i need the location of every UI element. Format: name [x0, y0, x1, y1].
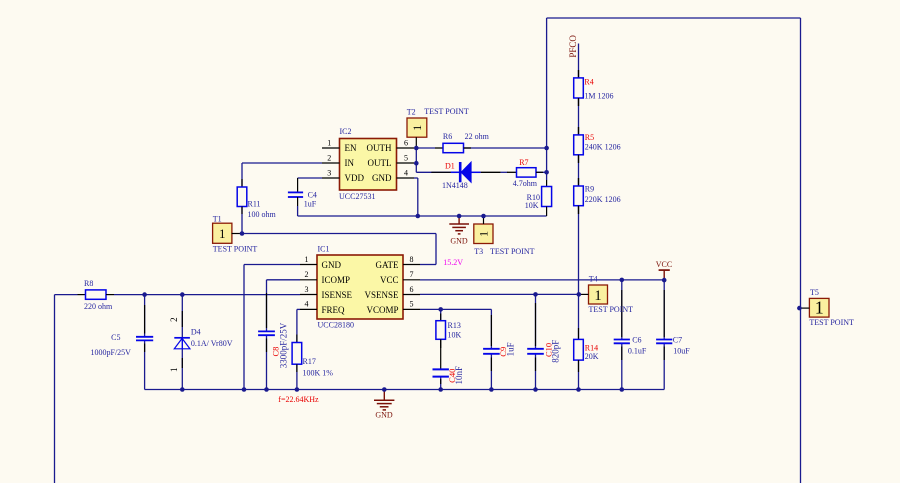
- svg-text:GATE: GATE: [376, 260, 399, 270]
- op-amp driver IC2 UCC27531: [322, 127, 414, 201]
- capacitor C6 0.1uF: [614, 336, 647, 356]
- svg-text:VCC: VCC: [380, 275, 399, 285]
- svg-text:C4: C4: [308, 190, 317, 199]
- wire upper ground rail: [298, 215, 547, 217]
- svg-text:2: 2: [327, 154, 331, 163]
- svg-text:4.7ohm: 4.7ohm: [513, 179, 538, 188]
- svg-text:T2: T2: [407, 108, 416, 117]
- wire IC1 pin5 VCOMP line: [420, 308, 491, 310]
- zener diode D4 0.1A/Vr80V: [169, 317, 233, 372]
- svg-text:5: 5: [404, 154, 408, 163]
- svg-text:10uF: 10uF: [673, 346, 690, 355]
- wire IC1 pin6 VSENSE line: [420, 293, 579, 295]
- svg-text:R17: R17: [303, 357, 316, 366]
- svg-text:R4: R4: [584, 77, 593, 86]
- test point T2: [407, 107, 469, 148]
- svg-text:T1: T1: [213, 215, 222, 224]
- svg-text:220 ohm: 220 ohm: [84, 302, 113, 311]
- svg-text:1: 1: [477, 231, 491, 237]
- svg-text:TEST POINT: TEST POINT: [213, 245, 258, 254]
- wire IC2 pin2 to R11: [242, 163, 322, 187]
- svg-text:0.1uF: 0.1uF: [628, 346, 647, 355]
- svg-text:ICOMP: ICOMP: [322, 275, 351, 285]
- svg-text:1: 1: [410, 125, 424, 131]
- svg-text:1: 1: [327, 139, 331, 148]
- svg-text:100K 1%: 100K 1%: [303, 369, 334, 378]
- voltage annotation 15.2V: [443, 258, 463, 267]
- wire D4 branch bottom: [181, 349, 183, 390]
- resistor R10 10K: [525, 180, 552, 216]
- svg-text:T3: T3: [474, 247, 483, 256]
- svg-text:GND: GND: [375, 410, 393, 419]
- svg-text:VCC: VCC: [656, 260, 672, 269]
- wire IC1 pin7 VCC line: [420, 279, 664, 281]
- ground symbol upper: [449, 216, 469, 245]
- svg-text:R11: R11: [248, 200, 261, 209]
- wire D4 branch top: [181, 295, 183, 338]
- wire C10 branch: [535, 294, 537, 389]
- capacitor C10 820pF: [527, 340, 560, 363]
- svg-text:EN: EN: [345, 143, 357, 153]
- capacitor C8 3300pF/25V: [258, 322, 288, 368]
- resistor R4 1M 1206: [574, 70, 614, 106]
- wire C9 branch: [490, 309, 492, 389]
- svg-text:1: 1: [594, 288, 601, 304]
- resistor R13 10K: [436, 314, 462, 349]
- svg-text:TEST POINT: TEST POINT: [490, 247, 535, 256]
- wire C7 branch: [663, 280, 665, 389]
- svg-text:IC2: IC2: [340, 127, 352, 136]
- svg-text:10nF: 10nF: [454, 366, 464, 385]
- test point T3: [474, 216, 535, 256]
- wire PFCO net vertical: [578, 44, 580, 295]
- svg-text:TEST POINT: TEST POINT: [589, 305, 634, 314]
- svg-text:1M 1206: 1M 1206: [584, 92, 613, 101]
- svg-text:VCOMP: VCOMP: [366, 305, 398, 315]
- svg-text:UCC28180: UCC28180: [318, 321, 354, 330]
- resistor R5 240K 1206: [574, 127, 621, 163]
- svg-text:1000pF/25V: 1000pF/25V: [91, 348, 132, 357]
- wire T1 node to IC1 GATE: [242, 234, 436, 265]
- svg-text:15.2V: 15.2V: [443, 258, 463, 267]
- svg-text:D1: D1: [445, 161, 455, 170]
- wire R6 output to bus: [464, 147, 547, 149]
- wire R17 to rail: [296, 364, 298, 389]
- wire R8 left to bottom: [55, 295, 78, 483]
- svg-text:R9: R9: [585, 185, 594, 194]
- svg-text:5: 5: [410, 300, 414, 309]
- svg-text:1: 1: [305, 255, 309, 264]
- wire C6 branch: [621, 280, 623, 390]
- wire IC1 pin4 FREQ to R17: [297, 309, 300, 342]
- svg-text:TEST POINT: TEST POINT: [809, 318, 854, 327]
- svg-text:8: 8: [410, 255, 414, 264]
- svg-text:10K: 10K: [525, 201, 539, 210]
- svg-text:1: 1: [815, 298, 824, 318]
- svg-text:2: 2: [169, 317, 179, 322]
- test point T4: [579, 275, 633, 315]
- test point T1: [213, 215, 258, 254]
- capacitor C9 1uF: [483, 342, 515, 356]
- svg-text:220K 1206: 220K 1206: [585, 195, 621, 204]
- wire C4 to rail: [297, 206, 299, 216]
- svg-text:GND: GND: [450, 236, 468, 245]
- svg-text:VDD: VDD: [345, 173, 365, 183]
- wire R11 to T1 junction: [241, 207, 243, 234]
- wire junctions: [142, 146, 801, 392]
- svg-text:4: 4: [305, 300, 309, 309]
- svg-text:UCC27531: UCC27531: [339, 192, 375, 201]
- capacitor C4 1uF: [288, 178, 317, 208]
- svg-text:3: 3: [305, 285, 309, 294]
- svg-text:FREQ: FREQ: [322, 305, 346, 315]
- controller IC1 UCC28180: [300, 245, 420, 330]
- svg-text:TEST POINT: TEST POINT: [424, 107, 469, 116]
- wire D1 to R7: [481, 171, 508, 173]
- svg-text:3: 3: [327, 169, 331, 178]
- test point T5: [799, 288, 854, 327]
- wire R8 to IC1 ISENSE: [114, 294, 300, 296]
- wire IC1 pin2 ICOMP to C8: [267, 280, 301, 332]
- capacitor C5 1000pF/25V: [91, 333, 154, 357]
- frequency annotation: [278, 395, 319, 404]
- svg-text:4: 4: [404, 169, 408, 178]
- wire IC2 pin3 to C4: [298, 177, 322, 179]
- svg-text:22 ohm: 22 ohm: [465, 132, 490, 141]
- svg-text:T4: T4: [589, 275, 598, 284]
- power symbol VCC: [656, 260, 672, 280]
- svg-text:0.1A/ Vr80V: 0.1A/ Vr80V: [191, 339, 233, 348]
- capacitor C7 10uF: [656, 336, 690, 356]
- svg-text:R8: R8: [84, 279, 93, 288]
- svg-text:1: 1: [219, 227, 225, 241]
- wire right vertical bus: [800, 18, 802, 483]
- svg-text:2: 2: [305, 270, 309, 279]
- resistor R8 220 ohm: [78, 279, 115, 311]
- resistor R11 100 ohm: [237, 179, 276, 219]
- svg-text:T5: T5: [810, 288, 819, 297]
- svg-text:3300pF/25V: 3300pF/25V: [279, 322, 289, 368]
- svg-text:D4: D4: [191, 328, 201, 337]
- svg-text:1uF: 1uF: [304, 199, 317, 208]
- wire IC1 pin1 GND to rail: [244, 265, 300, 390]
- svg-text:6: 6: [404, 139, 408, 148]
- svg-text:240K 1206: 240K 1206: [585, 142, 621, 151]
- resistor R7 4.7ohm: [507, 158, 543, 188]
- svg-text:C6: C6: [632, 336, 641, 345]
- svg-text:OUTL: OUTL: [368, 158, 392, 168]
- ground symbol lower: [374, 390, 394, 420]
- wire IC2 pin4 to ground rail: [414, 178, 418, 216]
- capacitor C40 10nF: [433, 366, 465, 385]
- wire left vertical of top loop: [546, 18, 548, 180]
- net label PFCO: [568, 35, 578, 58]
- wire C5 branch: [144, 295, 146, 390]
- svg-text:GND: GND: [322, 260, 342, 270]
- svg-text:IC1: IC1: [318, 245, 330, 254]
- svg-text:20K: 20K: [585, 352, 599, 361]
- svg-text:PFCO: PFCO: [568, 35, 578, 58]
- resistor R6 22 ohm: [417, 132, 490, 153]
- svg-text:f=22.64KHz: f=22.64KHz: [278, 395, 319, 404]
- svg-text:10K: 10K: [448, 330, 462, 339]
- wire C8 to rail: [266, 335, 268, 389]
- svg-text:R13: R13: [448, 321, 461, 330]
- wire R13 branch: [440, 309, 442, 389]
- svg-text:C5: C5: [111, 333, 120, 342]
- wire divider to bottom rail: [578, 294, 580, 389]
- svg-text:1uF: 1uF: [505, 342, 515, 356]
- wire top bus from PFC node: [547, 17, 801, 19]
- svg-text:C7: C7: [673, 336, 682, 345]
- resistor R17 100K 1%: [292, 335, 333, 378]
- svg-text:GND: GND: [372, 173, 392, 183]
- svg-text:ISENSE: ISENSE: [322, 290, 353, 300]
- wire R7 to bus: [536, 171, 547, 173]
- resistor R14 20K: [574, 328, 599, 372]
- svg-text:R6: R6: [443, 132, 452, 141]
- resistor R9 220K 1206: [574, 178, 621, 214]
- svg-text:1N4148: 1N4148: [442, 181, 468, 190]
- svg-text:R5: R5: [585, 133, 594, 142]
- svg-text:820pF: 820pF: [551, 340, 561, 363]
- svg-text:IN: IN: [345, 158, 355, 168]
- wire bottom ground rail: [145, 389, 665, 391]
- diode D1 1N4148: [431, 161, 480, 190]
- svg-text:7: 7: [410, 270, 414, 279]
- svg-text:VSENSE: VSENSE: [364, 290, 399, 300]
- svg-text:6: 6: [410, 285, 414, 294]
- svg-text:R7: R7: [519, 158, 528, 167]
- svg-text:1: 1: [169, 368, 179, 373]
- svg-text:100 ohm: 100 ohm: [248, 210, 277, 219]
- svg-text:OUTH: OUTH: [367, 143, 392, 153]
- wire OUTH-OUTL tie: [416, 148, 459, 172]
